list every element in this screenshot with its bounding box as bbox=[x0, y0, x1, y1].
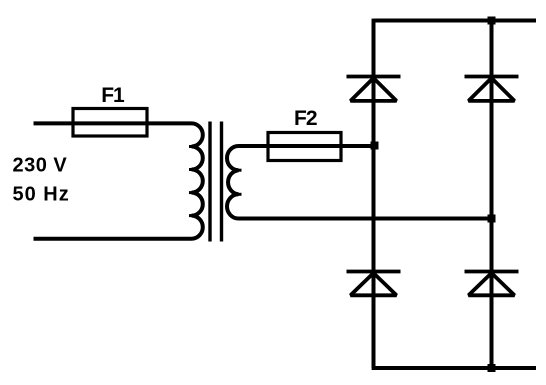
svg-text:50 Hz: 50 Hz bbox=[13, 184, 70, 206]
svg-text:F1: F1 bbox=[101, 84, 125, 107]
svg-text:F2: F2 bbox=[294, 107, 317, 130]
svg-text:230 V: 230 V bbox=[13, 155, 68, 177]
